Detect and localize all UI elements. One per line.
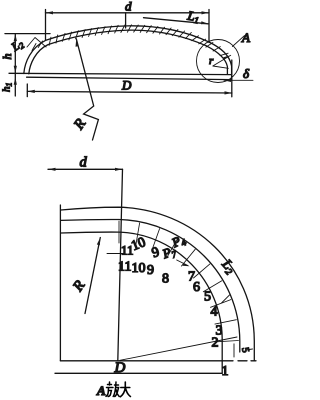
dimension d (bottom) arrows: [48, 168, 123, 171]
svg-text:d: d: [80, 155, 88, 171]
leader R with zigzag (top figure): [76, 39, 98, 140]
dimension D right extension: [231, 60, 233, 97]
svg-text:4: 4: [211, 305, 218, 320]
label R (top figure): [70, 116, 89, 133]
leader line to label A: [232, 36, 244, 47]
inner surface arc (bottom figure): [61, 232, 222, 373]
svg-text:d: d: [125, 0, 132, 14]
thickness arrow delta: [224, 79, 253, 81]
baseline through D (dash-dot at right end): [60, 360, 256, 362]
label h: [0, 54, 14, 60]
dimension h1 line: [14, 73, 16, 96]
character fang: [106, 382, 119, 397]
svg-text:10: 10: [132, 261, 146, 276]
small marks at lower end of neutral line: [233, 344, 235, 357]
bottom edge line of flange: [55, 372, 222, 374]
outer surface arc (bottom figure): [61, 207, 254, 361]
label L2 (top figure): [8, 36, 27, 56]
dimension h line: [14, 34, 16, 74]
svg-text:δ: δ: [243, 66, 250, 81]
head base rim line lower: [27, 77, 232, 79]
extension line for h top: [5, 33, 50, 35]
svg-text:D: D: [121, 78, 132, 93]
L2 dimension end tick near point 4: [222, 295, 230, 303]
svg-text:h: h: [0, 54, 14, 60]
dimension D left extension: [26, 84, 28, 97]
svg-text:D: D: [114, 360, 126, 376]
svg-text:2: 2: [212, 336, 219, 351]
tick under label 11: [107, 253, 124, 255]
radius line R (bottom figure): [85, 238, 100, 314]
svg-text:5: 5: [204, 290, 211, 305]
character da: [120, 382, 130, 397]
svg-text:8: 8: [162, 272, 169, 287]
dimension L1 arrow: [201, 21, 209, 24]
dimension d (bottom) line: [48, 168, 123, 170]
label P4 with subscript: [169, 231, 189, 253]
dimension L2 ticks (top figure): [27, 38, 46, 48]
upper row numbers along arc: [129, 235, 148, 254]
hatch ticks on head shell: [49, 25, 228, 56]
leader line from D to point 2: [120, 337, 237, 360]
dimension h1 arrow: [14, 77, 17, 85]
hatch ticks on left knuckle: [32, 41, 43, 51]
dimension h arrows: [14, 34, 17, 74]
label h1: [1, 83, 14, 93]
head inner surface curve (top figure): [29, 30, 228, 74]
neutral line arc with division points (bottom figure): [61, 219, 240, 352]
svg-text:11: 11: [121, 243, 134, 258]
centerline tick at crown apex: [125, 13, 127, 28]
left edge line of shell segment: [59, 205, 61, 361]
svg-text:9: 9: [147, 263, 154, 278]
extension line at crown tangent right (top figure): [208, 10, 210, 43]
radius r lines inside detail circle: [213, 55, 231, 68]
dimension d (top figure) line: [46, 12, 210, 14]
radius r arrowheads: [223, 55, 230, 59]
dimension d (top figure) left extension: [45, 10, 47, 41]
dimension D (top figure) line: [27, 91, 232, 93]
dimension d (top figure) arrows: [46, 11, 210, 14]
svg-text:11: 11: [118, 260, 131, 275]
svg-text:1: 1: [222, 364, 229, 379]
label P7 with subscript: [159, 242, 179, 264]
label L1: [185, 8, 200, 26]
extension line from d to point D: [118, 169, 123, 360]
detail circle A: [197, 40, 240, 83]
dimension L1 line: [144, 18, 209, 24]
dimension D arrows: [27, 90, 232, 95]
head base rim line upper: [9, 73, 232, 74]
label L2 (bottom figure): [217, 256, 238, 277]
svg-text:6: 6: [193, 280, 200, 295]
division ticks on neutral line points 2..11: [119, 221, 239, 342]
head outer surface curve (top figure): [24, 26, 232, 79]
svg-text:r: r: [209, 55, 214, 67]
label R (bottom figure): [70, 278, 89, 295]
svg-text:A: A: [241, 30, 250, 45]
arrow from P7 to its point: [177, 260, 188, 266]
svg-text:A: A: [96, 383, 106, 398]
